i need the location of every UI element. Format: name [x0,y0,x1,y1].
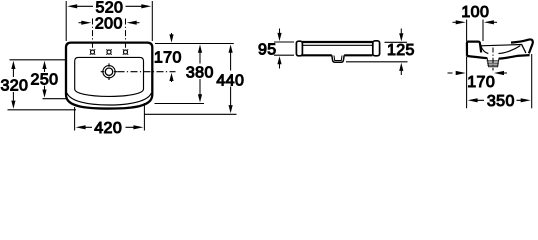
svg-text:350: 350 [487,93,515,110]
dim 250 arrow down [42,90,46,98]
dim 250 arrow up [42,61,46,69]
svg-text:95: 95 [258,42,277,59]
profile view: underside contour [467,55,530,59]
extension line 520 left [65,1,67,41]
left extension line top (inner rim level) [10,59,66,61]
dim 440 arrow up [229,45,233,53]
right extension line 380 bottom [155,103,205,105]
dim 420 arrow left [76,125,86,129]
extension line 100 right [482,20,484,42]
side view: drain cup inner [334,56,342,61]
centerline dash-dot overflow horizontal [118,71,176,73]
side view: slab top edge [302,41,373,43]
right extension line 440 bottom [145,113,237,115]
side view: left end bar [296,41,302,56]
front view: inner rim outline [75,57,144,96]
extension line 520 right [151,1,153,41]
dim 95 top stub [274,41,294,43]
profile view: front rim quad [467,42,481,56]
side view: drain cup outer [332,55,344,62]
dim 520 line [77,5,142,7]
profile view: rim top line to back [480,45,521,46]
extension line right view common left [466,20,468,109]
left extension line 320 bottom [8,109,77,111]
dim 380 arrow up [198,45,202,53]
svg-text:420: 420 [94,120,122,136]
side view: right end bar [373,41,380,56]
dim 380 arrow down [198,94,202,102]
svg-text:170: 170 [467,74,495,91]
dim 125 arrow bottom [399,63,403,71]
dim 170 profile arrow right [494,71,504,75]
front view: rim lower edge arc [67,93,151,105]
tap hole center [106,49,111,54]
profile view: bowl surface right [499,46,521,54]
profile view: back splash [511,39,533,53]
left extension line 250 bottom [43,98,68,100]
tap hole left [90,49,95,54]
svg-text:320: 320 [0,77,28,94]
dim 520 arrow right [141,4,151,8]
dim 170 profile arrow left [448,72,453,74]
svg-text:440: 440 [216,72,244,89]
dim 170 front arrow top [171,33,173,36]
dim 95 arrow bottom [277,56,281,64]
dim 95 arrow top [279,29,281,34]
front view: outer basin outline [66,43,152,109]
dim 350 arrow left [468,98,478,102]
dim 440 line [230,53,232,106]
svg-text:200: 200 [95,16,123,33]
dim 125 arrow top [400,29,402,34]
right extension line basin top level [155,43,234,45]
dim 320 line [12,69,14,101]
dim 170 front arrow bottom [169,73,173,81]
profile view: back splash inner edge [521,44,526,53]
dim 200 arrow left [81,21,91,25]
centerline dash-dot left tap hole [92,19,94,50]
extension line 420 left [74,107,76,131]
extension line 420 right [143,103,145,131]
svg-text:170: 170 [154,50,182,67]
overflow hole symbol [101,63,118,80]
svg-text:520: 520 [95,0,123,17]
dim 200 arrow right [127,21,137,25]
centerline dash-dot right tap hole [125,19,127,50]
dim 350 line [477,99,521,101]
dim 95 bottom stub [274,54,294,56]
side view: slab bottom edge [302,54,373,56]
dim 420 line [85,126,134,128]
dim 125 top stub [385,41,408,43]
svg-text:125: 125 [387,42,415,59]
dim 125 bottom extension line from drain [346,61,408,63]
dim 520 arrow left [67,4,77,8]
dim 380 line [199,53,201,95]
dim 440 arrow down [229,105,233,113]
dim 250 line [44,69,46,90]
dim 100 arrow left [453,21,458,23]
dim 420 arrow right [133,125,143,129]
dim 320 arrow down [11,101,15,109]
dim 320 arrow up [11,61,15,69]
extension line 350 right [531,54,533,108]
profile view: drain centerline dash-dot [492,48,494,71]
svg-text:100: 100 [461,4,489,21]
tap hole right [123,49,128,54]
side view: slab inner line [302,44,373,46]
dim 350 arrow right [521,98,531,102]
svg-text:380: 380 [186,65,214,82]
profile view: drain tail with threads [487,58,500,66]
svg-text:250: 250 [31,71,59,88]
dim 100 arrow right [484,20,494,24]
profile view: bowl surface left [481,46,489,54]
